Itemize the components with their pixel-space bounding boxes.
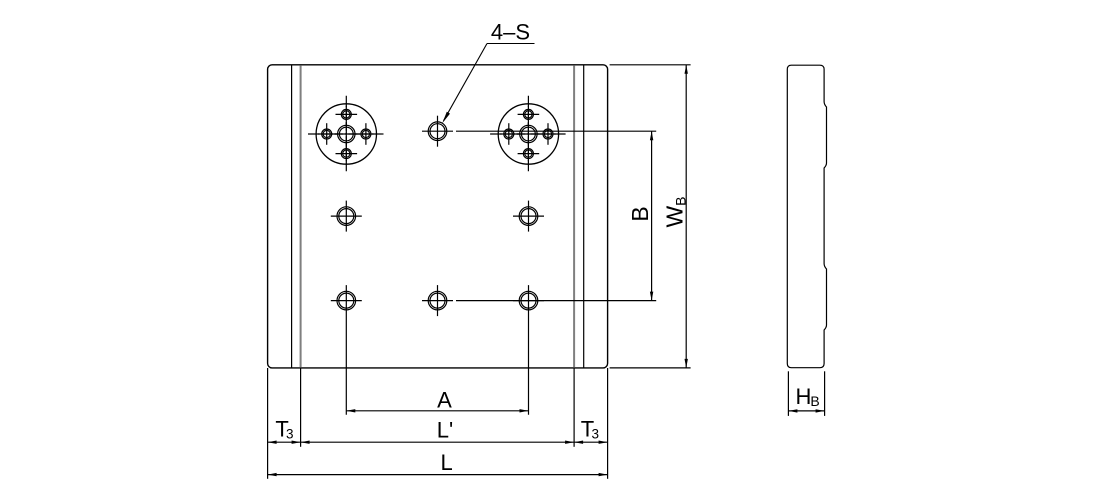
HB ext right [824, 371, 826, 416]
hole row3 left [331, 285, 362, 415]
hole row3 middle [422, 285, 453, 316]
B extension bottom [456, 300, 656, 302]
L' dimension [301, 441, 574, 443]
svg-text:4–S: 4–S [491, 20, 530, 45]
ext line L left [267, 368, 269, 479]
hole row2 right [513, 201, 544, 232]
A dimension line [346, 410, 528, 412]
HB ext left [787, 371, 789, 416]
svg-text:B: B [627, 206, 653, 221]
side view outline [787, 65, 826, 368]
left step gray line [300, 65, 302, 367]
T3 left dimension [268, 441, 301, 443]
ext line L' left [300, 368, 302, 447]
right step gray line [573, 65, 575, 367]
ext line L' right [573, 368, 575, 447]
hole row2 left [331, 201, 362, 232]
hole row3 right [513, 285, 544, 415]
B extension top [456, 130, 656, 132]
left bolt-circle pattern [308, 96, 385, 173]
HB dimension [788, 410, 824, 412]
leader 4-S [444, 44, 535, 121]
T3 right dimension [574, 441, 608, 443]
B dimension line [651, 131, 653, 300]
WB extension bottom [610, 367, 691, 369]
svg-text:A: A [437, 388, 452, 413]
hole top middle (4-S) [422, 116, 453, 147]
right bolt-circle pattern [490, 96, 567, 173]
plate outline (front view) [268, 65, 608, 368]
WB dimension line [685, 65, 687, 368]
WB extension top [610, 64, 691, 66]
ext line L right [607, 368, 609, 479]
L dimension [268, 474, 608, 476]
svg-text:L: L [440, 450, 452, 475]
left inner edge line [291, 65, 293, 368]
right inner edge line [583, 65, 585, 368]
svg-text:L': L' [437, 417, 453, 442]
